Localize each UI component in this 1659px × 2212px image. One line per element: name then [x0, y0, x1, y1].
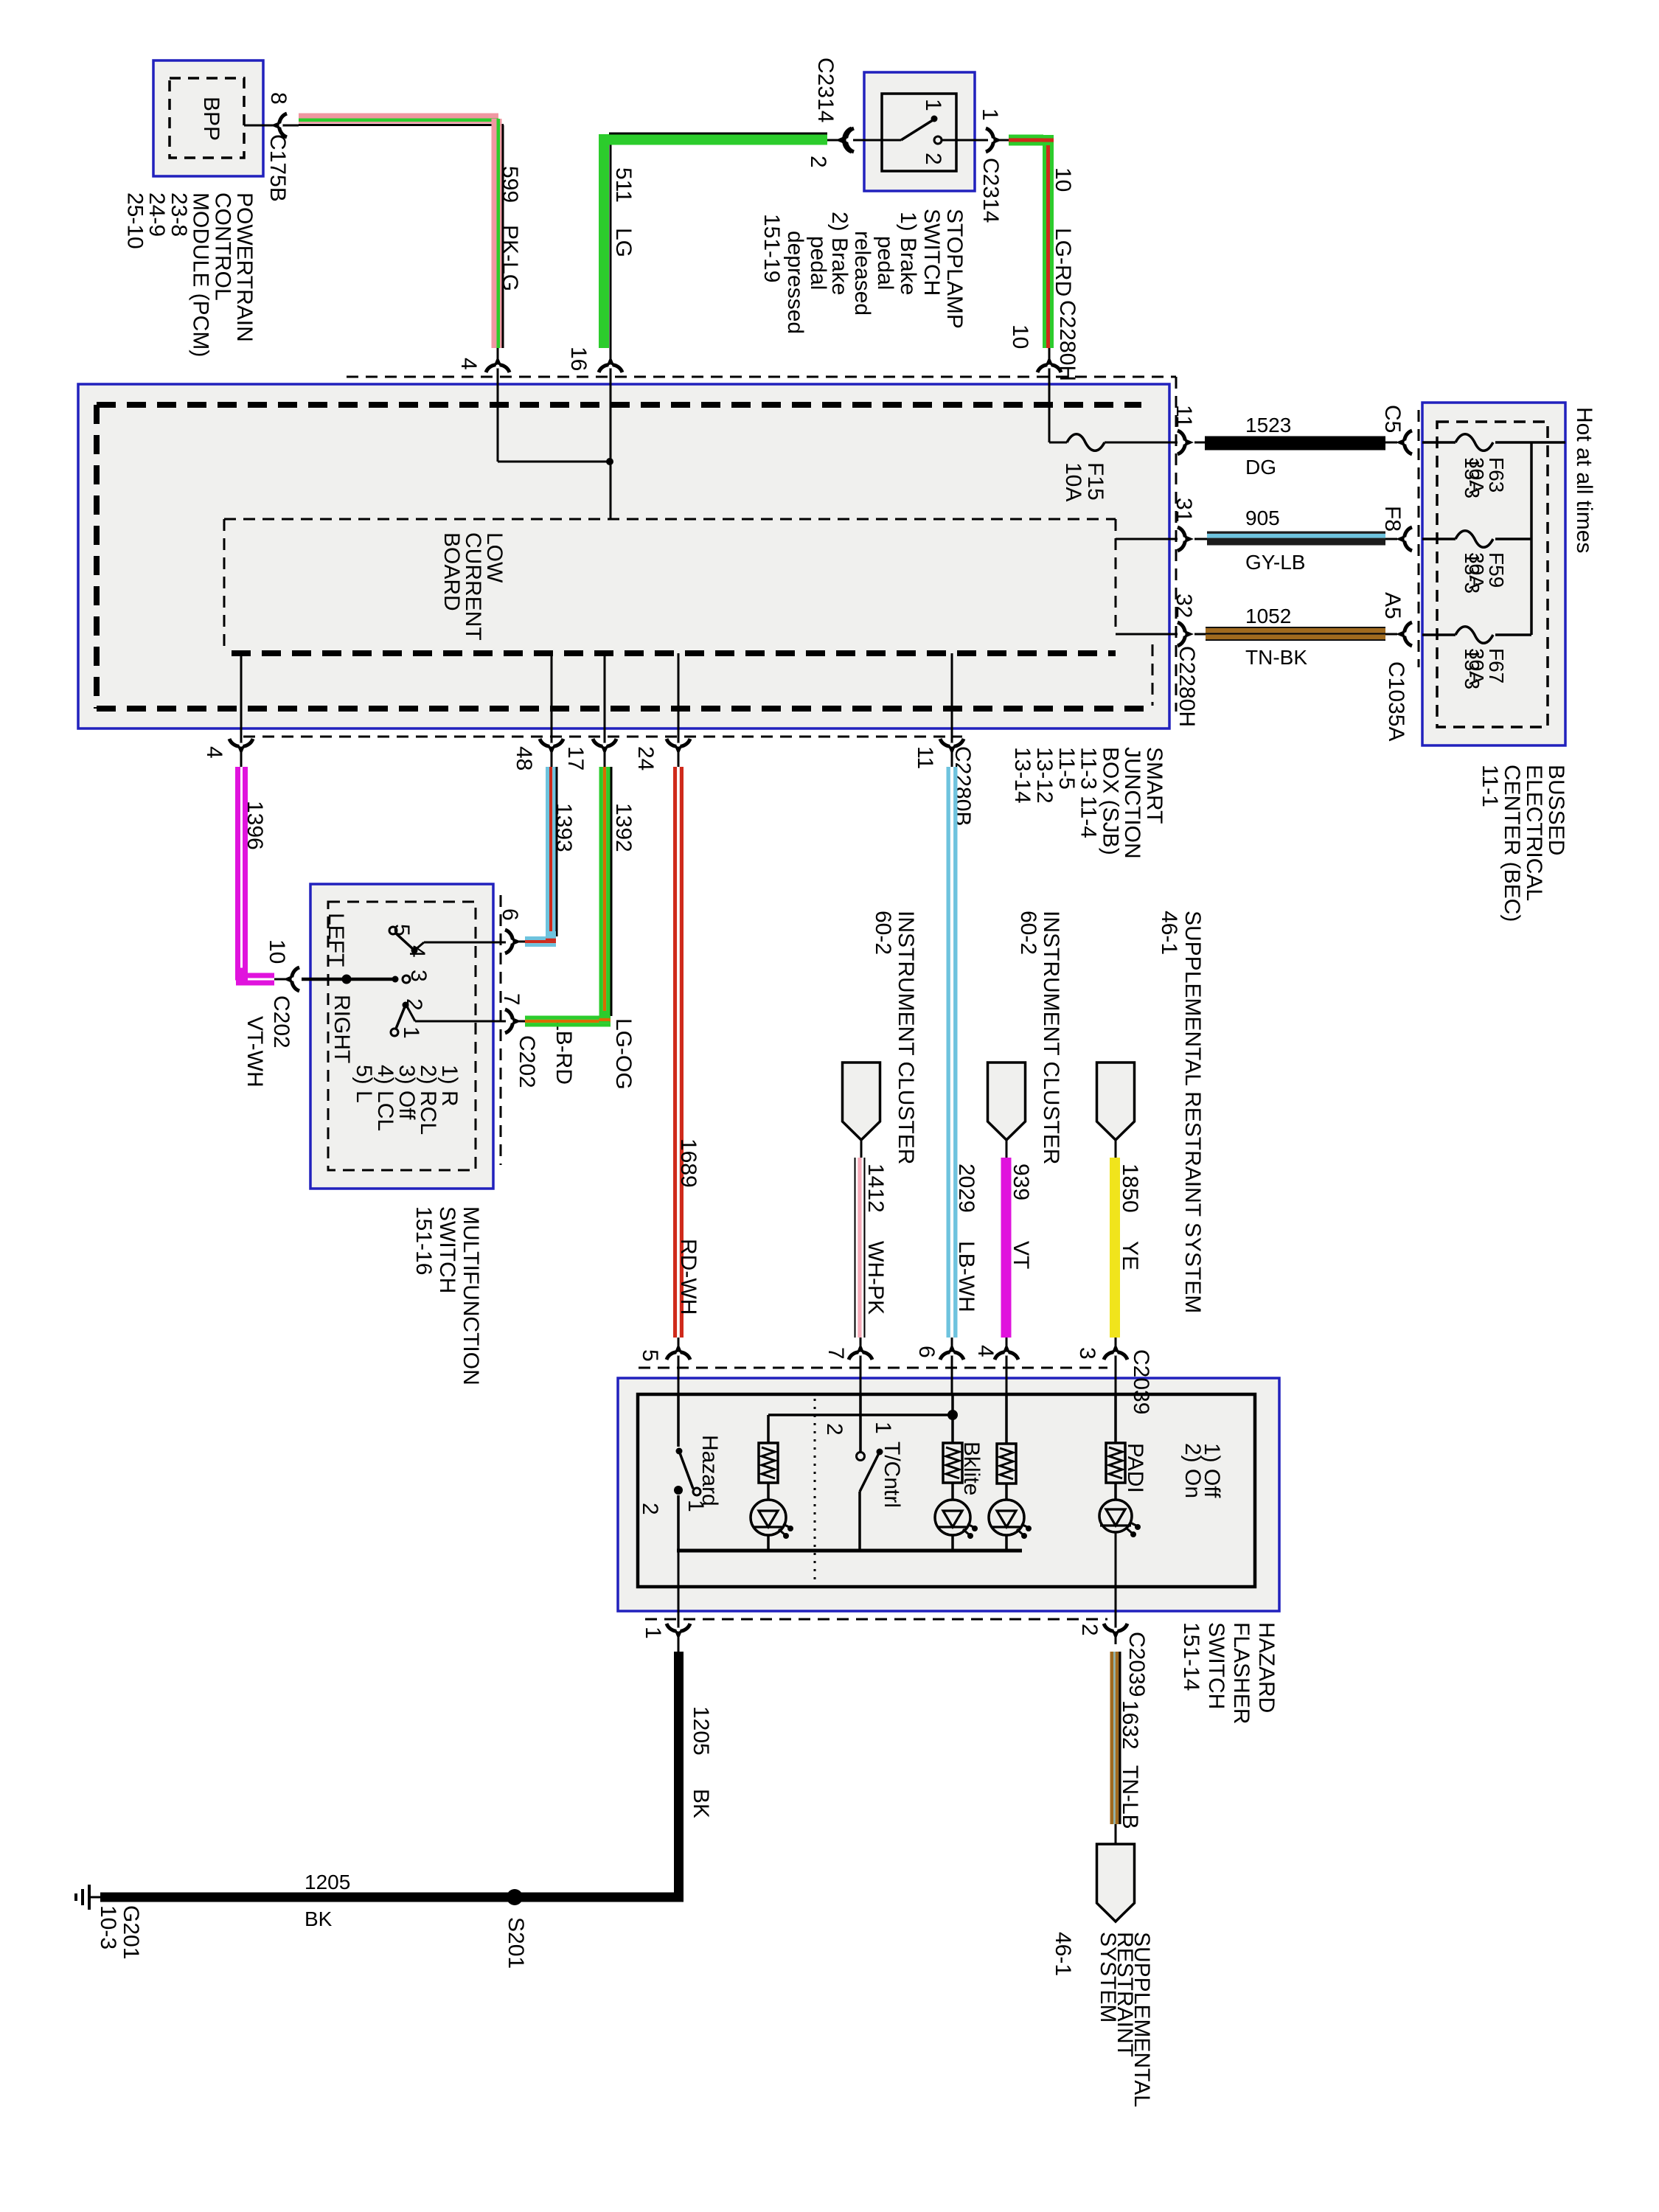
svg-text:13-3: 13-3 — [1461, 552, 1484, 594]
svg-text:4: 4 — [973, 1345, 998, 1357]
svg-text:C2314: C2314 — [813, 58, 838, 122]
connector arrow SJB pin 10 top — [1037, 356, 1061, 372]
hazard switch pivot dot — [676, 1448, 683, 1455]
connector arrow SJB pin 4 top — [486, 356, 509, 372]
svg-text:LG-RD: LG-RD — [1051, 228, 1075, 296]
switch HAZARD FLASHER SWITCH box — [618, 1378, 1279, 1611]
svg-text:905: 905 — [1245, 507, 1280, 529]
svg-text:MULTIFUNCTION: MULTIFUNCTION — [459, 1206, 483, 1385]
wire 10 lead to pin 10 — [1048, 348, 1051, 384]
MFS wire contact2 to pin7 — [407, 1006, 415, 1021]
svg-text:2: 2 — [822, 1423, 846, 1436]
svg-text:S201: S201 — [504, 1917, 528, 1969]
svg-text:HAZARD: HAZARD — [1254, 1622, 1279, 1713]
wire pin11 to fuse arrow — [1178, 431, 1194, 454]
svg-text:C2039: C2039 — [1129, 1349, 1153, 1414]
connector arrow hazard pin 3 — [1104, 1343, 1127, 1360]
connector arrow SJB pin 11 bottom — [940, 739, 964, 755]
svg-text:RIGHT: RIGHT — [330, 995, 354, 1063]
BEC feed line row2 — [1422, 538, 1455, 540]
BEC feed line row3 — [1422, 633, 1455, 636]
wire 511 LG horizontal band — [604, 135, 827, 145]
svg-text:SWITCH: SWITCH — [435, 1206, 459, 1293]
wire 1850 lead from pentagon — [1115, 1140, 1117, 1158]
MFS lower switch lever — [396, 1005, 406, 1029]
connector dashed line C2039 top of hazard — [639, 1367, 1107, 1369]
connector arrow C175B — [271, 114, 287, 137]
MFS upper switch contact 5 — [389, 927, 397, 934]
svg-text:13-12: 13-12 — [1032, 747, 1057, 804]
resistor PADI — [1106, 1443, 1125, 1483]
connector arrow stoplamp pin 1 — [986, 128, 1002, 152]
svg-text:Hazard: Hazard — [698, 1435, 722, 1506]
svg-text:TN-LB: TN-LB — [1118, 1765, 1142, 1829]
svg-text:1632: 1632 — [1118, 1700, 1142, 1750]
MFS wire contact4 to pin6 — [414, 942, 424, 950]
svg-text:BUSSED: BUSSED — [1544, 765, 1568, 855]
PADI out wire — [1115, 1532, 1117, 1644]
resistor lamp1 — [759, 1443, 778, 1483]
hazard pins leads — [678, 1338, 680, 1394]
svg-text:5: 5 — [638, 1349, 662, 1362]
svg-text:10A: 10A — [1061, 462, 1085, 501]
svg-text:7: 7 — [499, 993, 524, 1006]
connector dashed line C202 — [500, 895, 502, 1165]
svg-text:C2039: C2039 — [1124, 1632, 1149, 1697]
splice S201 dot — [507, 1889, 523, 1905]
connector dashed line C2039 bottom — [645, 1618, 1107, 1621]
wire 1396 VT-WH vertical band — [235, 767, 240, 974]
lamp3 wire — [1005, 1394, 1008, 1444]
ground G201 wire lead — [88, 1896, 100, 1899]
connector arrow C202 pin 10 — [283, 967, 299, 991]
svg-text:ELECTRICAL: ELECTRICAL — [1522, 765, 1546, 901]
svg-text:1689: 1689 — [676, 1138, 700, 1188]
svg-text:24-9: 24-9 — [145, 192, 169, 237]
svg-text:C175B: C175B — [265, 134, 290, 202]
wire 511 LG black line — [827, 139, 844, 142]
svg-text:11: 11 — [1172, 405, 1196, 428]
svg-text:11-3 11-4: 11-3 11-4 — [1077, 747, 1101, 838]
svg-text:INSTRUMENT CLUSTER: INSTRUMENT CLUSTER — [894, 911, 918, 1164]
wire 1393 LB-RD corner band — [525, 936, 556, 940]
wire 2029 LB-WH vertical band — [947, 767, 950, 1338]
svg-text:BPP: BPP — [199, 97, 223, 141]
module SMART JUNCTION BOX — [78, 384, 1169, 728]
fuse F63 30A — [1455, 434, 1493, 451]
wire 1392 LG-OG corner band — [525, 1016, 611, 1020]
resistor Bklite — [943, 1443, 962, 1483]
wire 599 lead to pin 4 — [497, 348, 499, 384]
connector arrow F8 — [1396, 527, 1412, 551]
svg-text:BOARD: BOARD — [439, 532, 464, 611]
svg-text:599: 599 — [498, 166, 522, 203]
svg-text:10: 10 — [1008, 324, 1032, 349]
wire 599 black line vertical — [502, 125, 504, 349]
wire 1412 lead from pentagon — [860, 1140, 863, 1158]
svg-text:2: 2 — [402, 998, 426, 1011]
T/Cntrl out wire — [858, 1492, 861, 1551]
connector arrow C202 pin 6 — [505, 930, 521, 953]
PADI wire — [1114, 1394, 1117, 1443]
connector arrow A5 — [1396, 622, 1412, 646]
svg-text:6: 6 — [914, 1346, 939, 1358]
wire 1850 YE band — [1110, 1158, 1120, 1338]
T/Cntrl contact circle — [857, 1453, 865, 1461]
MFS contact 3 dot and circle — [392, 976, 399, 983]
wire 1205 BK horizontal band — [100, 1893, 684, 1902]
svg-text:1392: 1392 — [611, 803, 636, 852]
hazard switch wire — [677, 1394, 680, 1447]
svg-text:2029: 2029 — [954, 1164, 978, 1213]
PCM inner dashed BPP box — [170, 78, 244, 158]
svg-text:1: 1 — [684, 1500, 708, 1512]
svg-text:VT-WH: VT-WH — [243, 1016, 267, 1088]
svg-text:BK: BK — [689, 1789, 713, 1818]
svg-text:32: 32 — [1172, 594, 1196, 618]
T/Cntrl lever and dot — [877, 1449, 883, 1455]
hazard inner box — [638, 1394, 1255, 1587]
SJB heavy dashed border — [97, 402, 1141, 408]
lamp indicator 1 — [751, 1500, 786, 1535]
wire 939 lead from pentagon — [1006, 1140, 1008, 1158]
wire 1205 BK vertical band — [674, 1652, 684, 1897]
svg-text:SYSTEM: SYSTEM — [1096, 1932, 1120, 2023]
svg-text:5) L: 5) L — [352, 1065, 376, 1103]
svg-text:DG: DG — [1245, 456, 1276, 479]
svg-text:48: 48 — [512, 746, 536, 771]
svg-text:POWERTRAIN: POWERTRAIN — [232, 192, 257, 342]
connector arrow SJB pin 24 — [667, 739, 690, 755]
svg-text:25-10: 25-10 — [123, 192, 147, 249]
svg-text:10-3: 10-3 — [96, 1905, 120, 1950]
connector arrow hazard pin 5 — [667, 1343, 690, 1360]
connector arrow SJB pin 4 bottom — [229, 739, 253, 755]
svg-text:F8: F8 — [1380, 506, 1405, 532]
hazard bottom bus — [677, 1549, 1022, 1553]
stoplamp wire left segment — [853, 139, 901, 142]
svg-text:24: 24 — [633, 746, 658, 771]
connector dashed line C1035A — [1418, 410, 1420, 667]
svg-text:CONTROL: CONTROL — [210, 192, 234, 301]
svg-text:C202: C202 — [269, 995, 293, 1048]
switch MULTIFUNCTION SWITCH box — [310, 884, 493, 1189]
connector arrow hazard pin 2 bottom — [1104, 1624, 1127, 1640]
svg-text:C2314: C2314 — [978, 158, 1003, 223]
svg-text:PK-LG: PK-LG — [498, 225, 522, 291]
svg-text:46-1: 46-1 — [1157, 911, 1181, 955]
wire 1689 RD-WH vertical band — [673, 767, 677, 1338]
wire 599 PK-LG vertical band — [492, 119, 497, 348]
wire 1632 TN-LB band — [1110, 1652, 1114, 1824]
svg-text:SWITCH: SWITCH — [1204, 1622, 1228, 1709]
resistor lamp3 — [997, 1444, 1016, 1484]
svg-text:Bklite: Bklite — [959, 1441, 984, 1495]
svg-text:17: 17 — [563, 746, 588, 771]
wire pin24 bottom lead — [678, 653, 680, 767]
wire 1523 DG band — [1205, 437, 1385, 451]
svg-text:SUPPLEMENTAL RESTRAINT SYSTEM: SUPPLEMENTAL RESTRAINT SYSTEM — [1180, 911, 1205, 1313]
connector arrow SJB pin 48 — [540, 739, 563, 755]
wire 1396 VT-WH corner band — [236, 973, 274, 978]
MFS lower switch contact 1 circle — [391, 1029, 398, 1036]
junction dot on Bklite wire — [947, 1410, 958, 1420]
connector SUPPLEMENTAL RESTRAINT SYSTEM pentagon bottom — [1097, 1844, 1135, 1921]
fuse F59 30A — [1455, 531, 1493, 548]
svg-text:1: 1 — [641, 1627, 665, 1639]
svg-text:G201: G201 — [119, 1905, 143, 1959]
connector INSTRUMENT CLUSTER 1 pentagon — [843, 1062, 880, 1140]
connector arrow SJB pin 16 top — [599, 356, 622, 372]
connector arrow pin 32 — [1178, 622, 1194, 646]
svg-text:1393: 1393 — [552, 803, 576, 852]
svg-text:released: released — [850, 231, 874, 316]
svg-text:STOPLAMP: STOPLAMP — [942, 209, 967, 329]
svg-text:13-14: 13-14 — [1010, 747, 1034, 804]
MFS lower switch contact 2 dot — [403, 1002, 409, 1009]
svg-text:4: 4 — [202, 746, 226, 759]
connector arrow hazard pin 6 — [940, 1343, 964, 1360]
wire 10 line to stoplamp pin1 — [998, 139, 1009, 142]
dotted separator — [814, 1399, 816, 1585]
wire 1393 LB-RD vertical band — [546, 767, 549, 931]
svg-text:BOX (SJB): BOX (SJB) — [1098, 747, 1122, 855]
svg-text:VT: VT — [1009, 1241, 1033, 1269]
wire from BPP to connector — [244, 125, 299, 127]
svg-text:1205: 1205 — [689, 1706, 713, 1756]
lamp1 branch line — [767, 1415, 770, 1443]
wire 905 GY-LB band — [1207, 532, 1385, 534]
svg-text:RD-WH: RD-WH — [676, 1239, 700, 1315]
svg-text:4: 4 — [456, 358, 481, 370]
hazard switch contact 1 circle — [693, 1488, 700, 1495]
svg-text:1396: 1396 — [243, 801, 267, 850]
hazard switch lever — [679, 1451, 693, 1489]
svg-text:INSTRUMENT CLUSTER: INSTRUMENT CLUSTER — [1039, 911, 1063, 1164]
ground symbol G201 — [88, 1885, 91, 1910]
wire pin32 line — [1116, 633, 1178, 636]
svg-text:939: 939 — [1009, 1164, 1033, 1200]
svg-text:60-2: 60-2 — [1016, 911, 1040, 955]
svg-text:1523: 1523 — [1245, 414, 1291, 437]
connector arrow stoplamp pin2 to wire — [838, 128, 854, 152]
svg-text:YE: YE — [1118, 1241, 1142, 1270]
BEC feed line row1 — [1422, 441, 1455, 444]
connector arrow hazard pin 7 — [849, 1343, 872, 1360]
svg-text:LG-OG: LG-OG — [611, 1018, 636, 1090]
module BUSSED ELECTRICAL CENTER — [1422, 403, 1565, 745]
wire 1412 WH-PK band — [855, 1158, 856, 1338]
svg-text:C2280H: C2280H — [1175, 646, 1199, 727]
svg-text:SMART: SMART — [1142, 747, 1166, 824]
stoplamp wire right segment — [942, 139, 988, 142]
svg-text:2) On: 2) On — [1180, 1443, 1205, 1498]
svg-text:16: 16 — [566, 347, 591, 371]
svg-text:JUNCTION: JUNCTION — [1120, 747, 1144, 859]
svg-text:1: 1 — [399, 1026, 423, 1039]
svg-text:2: 2 — [1077, 1624, 1102, 1636]
svg-text:TN-BK: TN-BK — [1245, 646, 1307, 669]
wire pin48 bottom lead — [551, 653, 553, 767]
hazard switch out wire — [677, 1495, 680, 1551]
wire pin11 bottom lead — [951, 653, 953, 767]
BEC internal bus — [1530, 442, 1533, 635]
wire 939 VT band — [1001, 1158, 1012, 1338]
svg-text:C5: C5 — [1380, 405, 1405, 433]
SJB internal wire pin10 down to fuse — [1048, 375, 1051, 442]
connector arrow hazard pin 4 — [995, 1343, 1018, 1360]
MFS upper switch lever — [396, 933, 413, 949]
svg-text:8: 8 — [266, 92, 291, 105]
wire 1396 line to C202 pin 10 — [274, 978, 290, 981]
svg-text:A5: A5 — [1380, 592, 1405, 619]
svg-text:3: 3 — [1075, 1347, 1099, 1360]
svg-text:WH-PK: WH-PK — [863, 1241, 888, 1315]
fuse F67 30A — [1455, 627, 1493, 644]
svg-text:11-5: 11-5 — [1054, 747, 1079, 790]
svg-text:C202: C202 — [515, 1035, 539, 1088]
svg-text:LB-WH: LB-WH — [954, 1241, 978, 1312]
connector arrow hazard pin 1 bottom — [667, 1624, 690, 1640]
svg-text:CENTER (BEC): CENTER (BEC) — [1500, 765, 1524, 922]
connector dashed line C2280H top — [347, 376, 1176, 378]
T/Cntrl switch wire — [859, 1394, 862, 1452]
wire 10 LG-RD corner/vertical band — [1043, 135, 1046, 348]
svg-text:T/Cntrl: T/Cntrl — [880, 1441, 904, 1508]
svg-text:46-1: 46-1 — [1051, 1932, 1075, 1976]
LOW CURRENT BOARD dashed box — [224, 518, 1116, 521]
svg-text:13-3: 13-3 — [1461, 648, 1484, 689]
svg-text:MODULE (PCM): MODULE (PCM) — [189, 192, 213, 357]
connector arrow SJB pin 17 — [593, 739, 616, 755]
stoplamp switch lever — [901, 120, 933, 140]
svg-text:1850: 1850 — [1118, 1164, 1142, 1213]
connector INSTRUMENT CLUSTER 2 pentagon — [988, 1062, 1026, 1140]
svg-text:1412: 1412 — [863, 1164, 888, 1213]
svg-text:BK: BK — [305, 1907, 333, 1930]
svg-text:LG: LG — [611, 228, 636, 257]
svg-text:1) Brake: 1) Brake — [896, 212, 920, 295]
connector arrow pin 31 — [1178, 527, 1194, 551]
wire 1393 line to C202 pin 6 — [519, 941, 525, 943]
svg-text:10: 10 — [1051, 167, 1075, 192]
svg-text:60-2: 60-2 — [871, 911, 895, 955]
fuse F15 10A — [1067, 434, 1105, 451]
svg-text:F15: F15 — [1083, 462, 1107, 501]
stoplamp inner box — [882, 94, 956, 171]
connector arrow C2314 left — [835, 128, 852, 152]
wire pin4 bottom lead — [240, 653, 243, 767]
svg-text:LEFT: LEFT — [324, 913, 348, 967]
svg-text:Hot at all times: Hot at all times — [1572, 407, 1596, 553]
wire 1392 LG-OG vertical band — [599, 767, 603, 1011]
wire 511 LG vertical band — [599, 134, 609, 348]
svg-text:1: 1 — [978, 108, 1002, 121]
connector arrow C202 pin 7 — [505, 1009, 521, 1033]
svg-text:2: 2 — [921, 153, 945, 165]
svg-text:1: 1 — [921, 99, 945, 111]
svg-text:pedal: pedal — [806, 236, 830, 290]
MFS inner dashed box — [328, 902, 476, 1170]
lamp Bklite — [935, 1500, 970, 1535]
svg-text:151-19: 151-19 — [759, 214, 784, 282]
stoplamp contact 1 dot — [931, 116, 938, 122]
svg-text:31: 31 — [1172, 498, 1196, 522]
switch STOPLAMP SWITCH box — [864, 72, 975, 191]
hazard exit wire pin 1 — [678, 1551, 680, 1652]
connector dashed line C2280B bottom — [243, 736, 962, 738]
BEC inner dashed box — [1437, 422, 1548, 727]
svg-text:1052: 1052 — [1245, 605, 1291, 627]
wire lead to SRS pentagon — [1115, 1824, 1117, 1844]
svg-text:151-16: 151-16 — [411, 1206, 436, 1275]
hazard switch contact 2 dot — [674, 1486, 683, 1495]
svg-text:PADI: PADI — [1123, 1443, 1147, 1493]
stoplamp contact 2 circle — [934, 136, 942, 144]
svg-text:13-3: 13-3 — [1461, 457, 1484, 498]
lamp 3 — [989, 1500, 1024, 1535]
wire 599 black line horizontal — [299, 124, 504, 126]
wire 10 LG-RD horizontal band — [1009, 135, 1043, 139]
wire pin31 line — [1116, 538, 1178, 540]
svg-text:11: 11 — [913, 746, 937, 769]
svg-text:depressed: depressed — [783, 231, 807, 334]
svg-text:1: 1 — [871, 1422, 895, 1434]
svg-text:1205: 1205 — [305, 1871, 350, 1893]
Bklite wire — [951, 1394, 954, 1443]
svg-text:151-14: 151-14 — [1179, 1622, 1203, 1691]
SJB internal wire pin16 down — [610, 375, 612, 519]
svg-text:pedal: pedal — [873, 236, 897, 290]
svg-text:LB-RD: LB-RD — [552, 1018, 576, 1085]
svg-text:7: 7 — [824, 1347, 848, 1360]
svg-text:23-8: 23-8 — [167, 192, 191, 237]
SJB internal wire pin4 to pin16 node — [497, 375, 499, 462]
svg-text:511: 511 — [611, 167, 636, 203]
svg-text:5: 5 — [389, 924, 414, 936]
MFS upper switch contact 4 dot — [411, 947, 418, 954]
MFS center wire from pin10 — [302, 978, 395, 981]
svg-text:SWITCH: SWITCH — [919, 209, 944, 296]
wire 511 lead to pin 16 — [610, 348, 612, 384]
svg-text:3: 3 — [406, 970, 431, 982]
connector SUPPLEMENTAL RESTRAINT SYSTEM pentagon top — [1097, 1062, 1135, 1140]
wire 1052 TN-BK band — [1206, 627, 1385, 628]
svg-text:FLASHER: FLASHER — [1229, 1622, 1253, 1724]
wire 599 PK-LG horizontal band — [299, 114, 498, 119]
svg-text:GY-LB: GY-LB — [1245, 551, 1305, 574]
module PCM box — [153, 60, 263, 176]
wire pin17 bottom lead — [604, 653, 606, 767]
svg-text:10: 10 — [265, 939, 289, 964]
svg-text:11-1: 11-1 — [1478, 765, 1502, 807]
connector arrow C5 — [1396, 431, 1412, 454]
svg-text:2: 2 — [806, 156, 830, 168]
lamp PADI — [1099, 1500, 1132, 1532]
svg-text:2: 2 — [638, 1503, 662, 1515]
wire 1392 line to C202 pin 7 — [519, 1020, 525, 1023]
svg-text:C1035A: C1035A — [1384, 661, 1408, 741]
